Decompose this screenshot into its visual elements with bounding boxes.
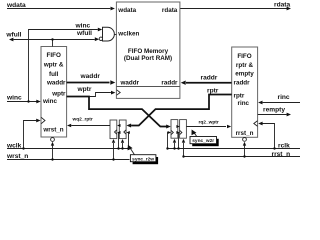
winc wire <box>7 101 37 103</box>
svg-text:sync_r2w: sync_r2w <box>132 156 154 162</box>
svg-text:waddr: waddr <box>46 79 66 86</box>
svg-text:rptr: rptr <box>207 87 219 94</box>
rrst_n to FF4 bottom <box>183 143 185 157</box>
svg-text:wptr: wptr <box>77 86 92 93</box>
svg-text:winc: winc <box>6 94 22 101</box>
rrst_n wire <box>183 156 300 158</box>
FF2-to-FF1 D arrow <box>117 124 120 127</box>
wdata wire <box>7 8 110 10</box>
svg-text:FIFO Memory: FIFO Memory <box>128 48 169 55</box>
rclk to rptr block clock <box>262 124 274 149</box>
svg-text:rinc: rinc <box>278 94 290 101</box>
wrst_n wire <box>7 159 130 161</box>
svg-text:rinc: rinc <box>238 100 250 107</box>
svg-text:full: full <box>49 71 59 78</box>
wclk wire <box>7 148 129 150</box>
FIFO rptr & empty block U-rptr <box>232 47 258 137</box>
sync_w2r callout label <box>190 130 219 147</box>
wptr thin branch to memory <box>90 93 111 97</box>
FF1 clock wedge <box>115 130 117 134</box>
rptr bus with crossing to sync_r2w <box>131 95 232 126</box>
wptr block clock wedge <box>41 117 45 124</box>
wfull from block top <box>52 40 54 47</box>
svg-text:raddr: raddr <box>234 79 251 86</box>
wptr bus with crossing to sync_w2r <box>67 97 167 127</box>
svg-text:(Dual Port RAM): (Dual Port RAM) <box>124 55 172 62</box>
svg-text:wq2_rptr: wq2_rptr <box>72 117 93 123</box>
wrst_n to FF1 bottom <box>113 143 115 160</box>
svg-text:rptr: rptr <box>234 92 245 99</box>
rclk wire <box>167 148 300 150</box>
svg-text:waddr: waddr <box>80 73 101 80</box>
rclk to FF3 clock side <box>167 133 169 149</box>
svg-text:wfull: wfull <box>76 30 92 37</box>
svg-text:rrst_n: rrst_n <box>236 130 254 137</box>
winc branch to AND gate <box>29 30 98 102</box>
FIFO wptr & full block U-wptr <box>41 47 67 138</box>
rempty wire <box>258 114 287 116</box>
svg-text:wdata: wdata <box>6 2 26 9</box>
FF3-to-FF4 D arrow <box>176 125 179 128</box>
wclk to wptr block clock <box>24 121 37 149</box>
svg-text:rdata: rdata <box>162 7 178 14</box>
svg-text:wclken: wclken <box>117 31 139 38</box>
wclk to FF2 clock side <box>127 133 130 149</box>
svg-text:rq2_wptr: rq2_wptr <box>199 119 219 125</box>
svg-text:rdata: rdata <box>274 2 290 9</box>
svg-text:wdata: wdata <box>117 7 136 14</box>
rinc wire <box>263 102 300 104</box>
memory wclk open wedge input <box>117 90 121 95</box>
rptr block reset bubble <box>243 138 247 142</box>
svg-text:wptr: wptr <box>51 90 66 97</box>
FF3 clock wedge <box>171 130 173 134</box>
wclk to FF2 bottom <box>122 143 124 149</box>
FIFO Memory block (Dual Port RAM) <box>116 2 179 98</box>
svg-text:wfull: wfull <box>5 32 21 39</box>
junction winc <box>27 100 29 102</box>
rptr block clock wedge <box>254 121 258 126</box>
AND gate output wire <box>114 34 116 36</box>
sync_w2r flip-flop FF4 <box>180 120 187 139</box>
wrst_n to wptr bubble <box>52 145 54 159</box>
rclk to FF3 bottom <box>174 143 176 149</box>
svg-text:winc: winc <box>42 98 57 105</box>
svg-text:raddr: raddr <box>161 79 178 86</box>
rq2_wptr wire <box>186 126 226 128</box>
sync_r2w flip-flop FF2 <box>119 120 126 139</box>
wfull wire <box>14 39 95 41</box>
svg-text:FIFO: FIFO <box>237 53 251 60</box>
waddr bus <box>67 82 110 84</box>
svg-text:rptr &: rptr & <box>236 62 254 69</box>
svg-text:FIFO: FIFO <box>47 52 61 59</box>
svg-text:rempty: rempty <box>263 107 285 114</box>
sync_r2w callout label <box>128 145 159 165</box>
svg-text:sync_w2r: sync_w2r <box>192 138 214 144</box>
FF4 clock wedge <box>180 130 182 134</box>
memory internal separator line <box>117 86 180 88</box>
wptr block reset bubble <box>51 138 55 142</box>
svg-text:wrst_n: wrst_n <box>42 126 63 133</box>
AND gate U-wclken <box>103 27 115 41</box>
sync_w2r flip-flop FF3 <box>171 120 178 139</box>
svg-text:wrst_n: wrst_n <box>6 153 28 160</box>
svg-text:empty: empty <box>235 71 254 78</box>
raddr bus <box>186 82 232 84</box>
svg-text:waddr: waddr <box>120 79 140 86</box>
wclk to FF1 clock side <box>118 133 120 149</box>
svg-text:raddr: raddr <box>201 75 218 82</box>
svg-text:wptr &: wptr & <box>43 62 64 69</box>
wq2_rptr wire <box>71 125 110 127</box>
AND gate input bubble <box>99 37 102 40</box>
FF2 clock wedge <box>124 130 126 134</box>
sync_r2w flip-flop FF1 <box>110 120 117 139</box>
rdata wire <box>180 8 287 10</box>
rclk to FF4 clock side <box>178 133 180 149</box>
svg-text:winc: winc <box>75 23 91 30</box>
rrst_n to rptr bubble <box>244 145 246 156</box>
